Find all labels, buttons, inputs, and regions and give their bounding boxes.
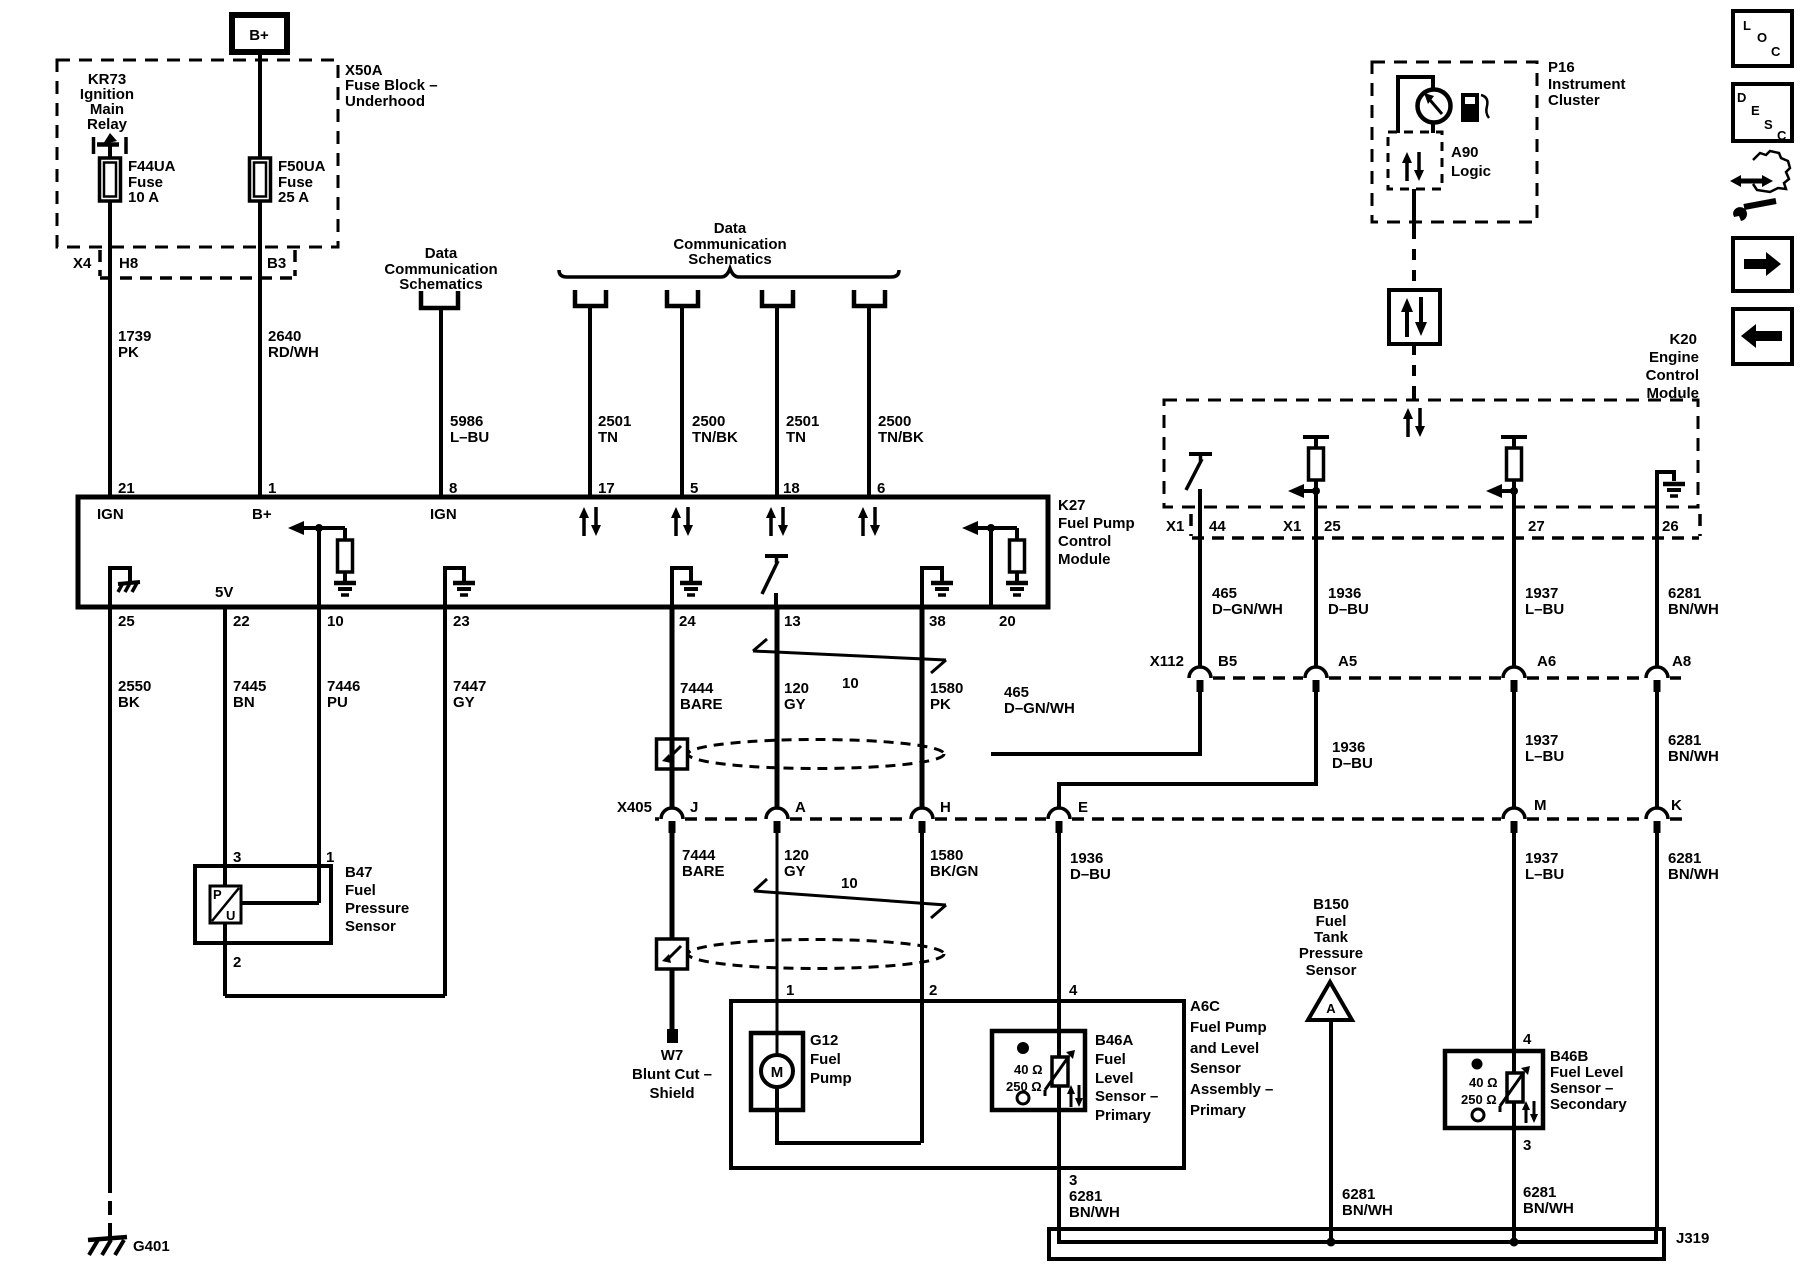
svg-text:L–BU: L–BU bbox=[1525, 866, 1564, 883]
svg-text:Primary: Primary bbox=[1095, 1107, 1152, 1124]
svg-text:40 Ω: 40 Ω bbox=[1014, 1062, 1043, 1077]
svg-text:6281: 6281 bbox=[1668, 732, 1701, 749]
svg-text:G12: G12 bbox=[810, 1032, 838, 1049]
svg-text:10 A: 10 A bbox=[128, 189, 159, 206]
svg-text:B+: B+ bbox=[249, 27, 269, 44]
svg-text:BK: BK bbox=[118, 694, 140, 711]
svg-text:10: 10 bbox=[841, 875, 858, 892]
svg-text:1: 1 bbox=[268, 480, 276, 497]
svg-text:Level: Level bbox=[1095, 1070, 1133, 1087]
svg-text:X1: X1 bbox=[1166, 518, 1184, 535]
svg-text:2501: 2501 bbox=[598, 413, 631, 430]
svg-text:1937: 1937 bbox=[1525, 585, 1558, 602]
svg-text:Schematics: Schematics bbox=[688, 251, 771, 268]
svg-text:Sensor –: Sensor – bbox=[1095, 1088, 1158, 1105]
svg-text:GY: GY bbox=[453, 694, 475, 711]
svg-text:Fuel Pump: Fuel Pump bbox=[1058, 515, 1135, 532]
svg-text:1: 1 bbox=[786, 982, 794, 999]
svg-text:TN: TN bbox=[598, 429, 618, 446]
svg-text:2640: 2640 bbox=[268, 328, 301, 345]
svg-text:Data: Data bbox=[425, 245, 458, 262]
svg-text:J319: J319 bbox=[1676, 1230, 1709, 1247]
svg-text:Fuel: Fuel bbox=[810, 1051, 841, 1068]
svg-text:Fuel Pump: Fuel Pump bbox=[1190, 1019, 1267, 1036]
svg-text:C: C bbox=[1777, 128, 1787, 143]
svg-text:D–GN/WH: D–GN/WH bbox=[1004, 700, 1075, 717]
svg-text:Instrument: Instrument bbox=[1548, 76, 1626, 93]
svg-text:D–GN/WH: D–GN/WH bbox=[1212, 601, 1283, 618]
svg-text:21: 21 bbox=[118, 480, 135, 497]
svg-text:2500: 2500 bbox=[692, 413, 725, 430]
svg-text:6281: 6281 bbox=[1668, 585, 1701, 602]
svg-text:D–BU: D–BU bbox=[1328, 601, 1369, 618]
svg-text:Sensor: Sensor bbox=[1306, 962, 1357, 979]
svg-text:BN/WH: BN/WH bbox=[1668, 866, 1719, 883]
svg-text:Assembly –: Assembly – bbox=[1190, 1081, 1273, 1098]
svg-text:8: 8 bbox=[449, 480, 457, 497]
svg-text:6281: 6281 bbox=[1342, 1186, 1375, 1203]
svg-text:1936: 1936 bbox=[1070, 850, 1103, 867]
svg-text:44: 44 bbox=[1209, 518, 1226, 535]
svg-text:BK/GN: BK/GN bbox=[930, 863, 978, 880]
svg-text:E: E bbox=[1751, 103, 1760, 118]
svg-text:B5: B5 bbox=[1218, 653, 1237, 670]
svg-text:4: 4 bbox=[1069, 982, 1078, 999]
svg-text:BARE: BARE bbox=[680, 696, 723, 713]
svg-text:3: 3 bbox=[233, 849, 241, 866]
svg-text:25 A: 25 A bbox=[278, 189, 309, 206]
svg-text:B46A: B46A bbox=[1095, 1032, 1134, 1049]
svg-text:1739: 1739 bbox=[118, 328, 151, 345]
svg-text:P: P bbox=[213, 887, 222, 902]
svg-text:K: K bbox=[1671, 797, 1682, 814]
svg-text:1580: 1580 bbox=[930, 680, 963, 697]
svg-text:IGN: IGN bbox=[430, 506, 457, 523]
svg-text:F44UA: F44UA bbox=[128, 158, 176, 175]
svg-text:2: 2 bbox=[929, 982, 937, 999]
svg-text:F50UA: F50UA bbox=[278, 158, 326, 175]
svg-text:40 Ω: 40 Ω bbox=[1469, 1075, 1498, 1090]
svg-text:38: 38 bbox=[929, 613, 946, 630]
svg-text:6281: 6281 bbox=[1069, 1188, 1102, 1205]
svg-text:PU: PU bbox=[327, 694, 348, 711]
svg-text:2500: 2500 bbox=[878, 413, 911, 430]
svg-text:B+: B+ bbox=[252, 506, 272, 523]
svg-text:250 Ω: 250 Ω bbox=[1006, 1079, 1042, 1094]
svg-text:TN/BK: TN/BK bbox=[692, 429, 738, 446]
svg-text:C: C bbox=[1771, 44, 1781, 59]
svg-text:E: E bbox=[1078, 799, 1088, 816]
svg-text:24: 24 bbox=[679, 613, 696, 630]
svg-text:A6C: A6C bbox=[1190, 998, 1220, 1015]
svg-text:7445: 7445 bbox=[233, 678, 266, 695]
svg-text:20: 20 bbox=[999, 613, 1016, 630]
svg-text:W7: W7 bbox=[661, 1047, 684, 1064]
svg-text:2: 2 bbox=[233, 954, 241, 971]
svg-text:BN/WH: BN/WH bbox=[1668, 748, 1719, 765]
svg-text:23: 23 bbox=[453, 613, 470, 630]
svg-text:27: 27 bbox=[1528, 518, 1545, 535]
svg-text:1936: 1936 bbox=[1328, 585, 1361, 602]
svg-text:A8: A8 bbox=[1672, 653, 1691, 670]
svg-text:3: 3 bbox=[1523, 1137, 1531, 1154]
svg-text:and Level: and Level bbox=[1190, 1040, 1259, 1057]
svg-text:1936: 1936 bbox=[1332, 739, 1365, 756]
svg-text:A: A bbox=[795, 799, 806, 816]
svg-text:Module: Module bbox=[1647, 385, 1700, 402]
svg-text:26: 26 bbox=[1662, 518, 1679, 535]
svg-text:BN/WH: BN/WH bbox=[1342, 1202, 1393, 1219]
svg-text:2550: 2550 bbox=[118, 678, 151, 695]
svg-text:1580: 1580 bbox=[930, 847, 963, 864]
svg-text:D–BU: D–BU bbox=[1332, 755, 1373, 772]
svg-text:K27: K27 bbox=[1058, 497, 1086, 514]
svg-text:Sensor: Sensor bbox=[1190, 1060, 1241, 1077]
svg-text:G401: G401 bbox=[133, 1238, 170, 1255]
svg-text:Data: Data bbox=[714, 220, 747, 237]
svg-text:120: 120 bbox=[784, 680, 809, 697]
svg-text:D: D bbox=[1737, 90, 1746, 105]
svg-text:BN/WH: BN/WH bbox=[1668, 601, 1719, 618]
svg-text:A90: A90 bbox=[1451, 144, 1479, 161]
svg-text:10: 10 bbox=[842, 675, 859, 692]
svg-text:5986: 5986 bbox=[450, 413, 483, 430]
svg-text:S: S bbox=[1764, 117, 1773, 132]
svg-text:6281: 6281 bbox=[1668, 850, 1701, 867]
svg-text:25: 25 bbox=[118, 613, 135, 630]
svg-text:Fuel: Fuel bbox=[345, 882, 376, 899]
svg-text:465: 465 bbox=[1212, 585, 1237, 602]
svg-text:Control: Control bbox=[1058, 533, 1111, 550]
svg-text:L–BU: L–BU bbox=[450, 429, 489, 446]
svg-text:17: 17 bbox=[598, 480, 615, 497]
svg-text:Blunt Cut –: Blunt Cut – bbox=[632, 1066, 712, 1083]
svg-text:Shield: Shield bbox=[649, 1085, 694, 1102]
svg-text:P16: P16 bbox=[1548, 59, 1575, 76]
svg-text:M: M bbox=[1534, 797, 1547, 814]
svg-text:Sensor –: Sensor – bbox=[1550, 1080, 1613, 1097]
svg-text:Pressure: Pressure bbox=[345, 900, 409, 917]
svg-text:5: 5 bbox=[690, 480, 698, 497]
svg-text:1937: 1937 bbox=[1525, 732, 1558, 749]
svg-text:120: 120 bbox=[784, 847, 809, 864]
svg-text:D–BU: D–BU bbox=[1070, 866, 1111, 883]
svg-text:BN/WH: BN/WH bbox=[1523, 1200, 1574, 1217]
svg-text:Sensor: Sensor bbox=[345, 918, 396, 935]
svg-text:B47: B47 bbox=[345, 864, 373, 881]
svg-text:IGN: IGN bbox=[97, 506, 124, 523]
svg-text:25: 25 bbox=[1324, 518, 1341, 535]
svg-text:1: 1 bbox=[326, 849, 334, 866]
svg-text:7447: 7447 bbox=[453, 678, 486, 695]
svg-text:X4: X4 bbox=[73, 255, 92, 272]
svg-text:B3: B3 bbox=[267, 255, 286, 272]
svg-text:Tank: Tank bbox=[1314, 929, 1349, 946]
svg-text:Fuel: Fuel bbox=[1316, 913, 1347, 930]
svg-text:Underhood: Underhood bbox=[345, 93, 425, 110]
svg-text:Fuse Block –: Fuse Block – bbox=[345, 77, 438, 94]
svg-text:X112: X112 bbox=[1150, 653, 1184, 670]
svg-text:Fuel Level: Fuel Level bbox=[1550, 1064, 1623, 1081]
svg-text:PK: PK bbox=[930, 696, 951, 713]
svg-text:6: 6 bbox=[877, 480, 885, 497]
svg-text:3: 3 bbox=[1069, 1172, 1077, 1189]
svg-text:4: 4 bbox=[1523, 1031, 1532, 1048]
svg-text:GY: GY bbox=[784, 863, 806, 880]
svg-text:X405: X405 bbox=[617, 799, 652, 816]
svg-text:H: H bbox=[940, 799, 951, 816]
svg-text:Cluster: Cluster bbox=[1548, 92, 1600, 109]
svg-text:Fuel: Fuel bbox=[1095, 1051, 1126, 1068]
svg-text:7444: 7444 bbox=[682, 847, 716, 864]
svg-text:7446: 7446 bbox=[327, 678, 360, 695]
svg-text:B46B: B46B bbox=[1550, 1048, 1589, 1065]
svg-text:GY: GY bbox=[784, 696, 806, 713]
svg-text:13: 13 bbox=[784, 613, 801, 630]
svg-text:TN: TN bbox=[786, 429, 806, 446]
svg-text:J: J bbox=[690, 799, 698, 816]
svg-text:A: A bbox=[1326, 1001, 1336, 1016]
svg-text:H8: H8 bbox=[119, 255, 138, 272]
svg-text:1937: 1937 bbox=[1525, 850, 1558, 867]
svg-text:L–BU: L–BU bbox=[1525, 748, 1564, 765]
svg-text:7444: 7444 bbox=[680, 680, 714, 697]
svg-text:BN: BN bbox=[233, 694, 255, 711]
svg-text:250 Ω: 250 Ω bbox=[1461, 1092, 1497, 1107]
svg-text:Logic: Logic bbox=[1451, 163, 1491, 180]
svg-text:U: U bbox=[226, 908, 235, 923]
svg-text:18: 18 bbox=[783, 480, 800, 497]
svg-text:Module: Module bbox=[1058, 551, 1111, 568]
svg-text:5V: 5V bbox=[215, 584, 233, 601]
svg-text:Pressure: Pressure bbox=[1299, 945, 1363, 962]
svg-text:Control: Control bbox=[1646, 367, 1699, 384]
svg-text:BN/WH: BN/WH bbox=[1069, 1204, 1120, 1221]
svg-text:Schematics: Schematics bbox=[399, 276, 482, 293]
svg-text:6281: 6281 bbox=[1523, 1184, 1556, 1201]
svg-text:RD/WH: RD/WH bbox=[268, 344, 319, 361]
svg-text:BARE: BARE bbox=[682, 863, 725, 880]
svg-text:TN/BK: TN/BK bbox=[878, 429, 924, 446]
svg-text:M: M bbox=[771, 1064, 784, 1081]
svg-text:Pump: Pump bbox=[810, 1070, 852, 1087]
svg-text:L–BU: L–BU bbox=[1525, 601, 1564, 618]
svg-text:10: 10 bbox=[327, 613, 344, 630]
svg-text:PK: PK bbox=[118, 344, 139, 361]
svg-text:465: 465 bbox=[1004, 684, 1029, 701]
svg-text:22: 22 bbox=[233, 613, 250, 630]
svg-text:Primary: Primary bbox=[1190, 1102, 1247, 1119]
svg-text:O: O bbox=[1757, 30, 1767, 45]
svg-text:A6: A6 bbox=[1537, 653, 1556, 670]
svg-text:Engine: Engine bbox=[1649, 349, 1699, 366]
svg-text:A5: A5 bbox=[1338, 653, 1357, 670]
svg-text:2501: 2501 bbox=[786, 413, 819, 430]
svg-text:X1: X1 bbox=[1283, 518, 1301, 535]
svg-text:Relay: Relay bbox=[87, 116, 128, 133]
svg-text:L: L bbox=[1743, 18, 1751, 33]
svg-text:Secondary: Secondary bbox=[1550, 1096, 1627, 1113]
svg-text:K20: K20 bbox=[1669, 331, 1697, 348]
svg-text:B150: B150 bbox=[1313, 896, 1349, 913]
